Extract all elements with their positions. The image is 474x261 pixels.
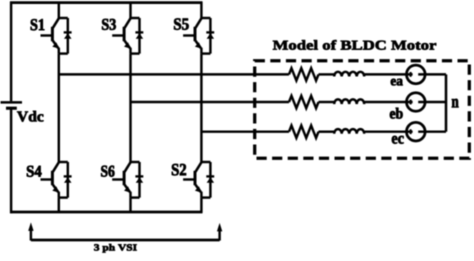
label S2 — [172, 164, 186, 176]
transistor S4 (IGBT) — [41, 162, 68, 198]
wire: leg 2 from top rail to upper switch — [129, 2, 131, 19]
wire: left DC bus lower segment — [10, 109, 12, 213]
wire: phase a from leg 1 to resistor — [59, 73, 289, 75]
wire: leg 3 mid section (phase tap) — [200, 54, 202, 163]
wire: phase c inductor to source ec — [364, 130, 412, 132]
transistor S3 (IGBT) — [112, 18, 139, 54]
wire: phase c resistor to inductor — [319, 130, 335, 132]
diode D5 (antiparallel freewheeling) — [206, 18, 214, 54]
diode D6 (antiparallel freewheeling) — [135, 162, 143, 198]
node n (neutral) — [452, 99, 459, 108]
diode D4 (antiparallel freewheeling) — [64, 162, 72, 198]
wire: leg 1 from top rail to upper switch — [58, 2, 60, 19]
label ea — [391, 79, 403, 86]
label S3 — [102, 19, 116, 30]
wire: source eb to neutral — [418, 101, 446, 103]
wire: source ec to neutral — [418, 130, 446, 132]
wire: neutral bus — [445, 74, 448, 131]
wire: phase a resistor to inductor — [319, 73, 335, 75]
inductor Lc — [334, 129, 364, 134]
wire: leg 3 to bottom rail — [200, 198, 202, 213]
label S1 — [31, 19, 45, 30]
EMF source ea — [407, 65, 426, 84]
EMF source ec — [407, 122, 426, 141]
BLDC motor model dashed boundary box — [255, 61, 470, 159]
transistor S5 (IGBT) — [183, 18, 210, 54]
label S4 — [27, 166, 42, 177]
inductor La — [334, 72, 364, 77]
3 ph VSI span arrow — [28, 222, 222, 240]
wire: top DC rail (+) — [10, 1, 203, 4]
label S6 — [101, 166, 114, 177]
label: 3 ph VSI — [94, 244, 137, 253]
wire: leg 2 mid section (phase tap) — [129, 54, 131, 163]
wire: phase b from leg 2 to resistor — [131, 101, 290, 103]
label Vdc — [17, 111, 43, 122]
diode D2 (antiparallel freewheeling) — [206, 162, 214, 198]
inductor Lb — [334, 99, 364, 104]
transistor S2 (IGBT) — [183, 162, 210, 198]
wire: leg 1 to bottom rail — [58, 198, 60, 213]
wire: source ea to neutral — [418, 73, 446, 75]
label: Model of BLDC Motor title — [273, 40, 436, 50]
wire: bottom DC rail (-) — [10, 211, 203, 214]
wire: left DC bus upper segment — [10, 2, 12, 102]
wire: leg 2 to bottom rail — [129, 198, 131, 213]
wire: leg 3 from top rail to upper switch — [200, 2, 202, 19]
resistor Ra — [289, 68, 319, 80]
wire: phase c from leg 3 to resistor — [201, 130, 289, 132]
resistor Rc — [289, 125, 319, 137]
diode D3 (antiparallel freewheeling) — [135, 18, 143, 54]
diode D1 (antiparallel freewheeling) — [64, 18, 72, 54]
EMF source eb — [407, 93, 426, 112]
resistor Rb — [289, 96, 319, 108]
wire: phase b resistor to inductor — [319, 101, 335, 103]
wire: phase b inductor to source eb — [364, 101, 412, 103]
wire: phase a inductor to source ea — [364, 73, 412, 75]
wire: leg 1 mid section (phase tap) — [58, 54, 60, 163]
label ec — [392, 136, 404, 144]
label S5 — [174, 18, 189, 29]
battery Vdc — [1, 102, 23, 108]
transistor S6 (IGBT) — [112, 162, 139, 198]
transistor S1 (IGBT) — [41, 18, 68, 54]
label eb — [390, 108, 403, 119]
